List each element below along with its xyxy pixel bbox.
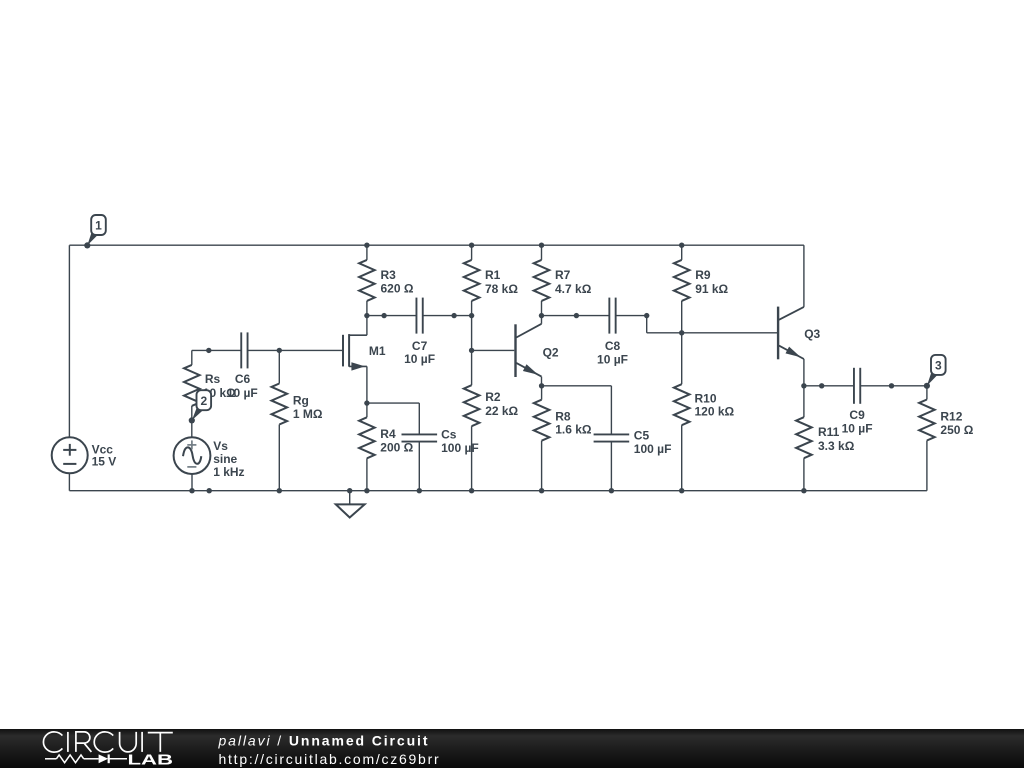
capacitor C6 plates [241,332,247,368]
svg-text:R12: R12 [940,409,962,423]
svg-text:1 kHz: 1 kHz [213,465,244,479]
svg-text:Rs: Rs [205,372,221,386]
label Rg [293,394,323,422]
svg-text:C7: C7 [412,339,428,353]
svg-text:4.7 kΩ: 4.7 kΩ [555,282,592,296]
wire C8 right bend to Q3 base [616,316,778,333]
resistor R11 [796,386,812,491]
svg-text:78 kΩ: 78 kΩ [485,282,518,296]
svg-text:250 Ω: 250 Ω [940,423,973,437]
svg-text:22 kΩ: 22 kΩ [485,404,518,418]
wire bottom ground rail [69,490,927,492]
node 2 flag [189,390,211,423]
svg-text:sine: sine [213,452,237,466]
wire node2 to Vs top [191,420,193,437]
svg-text:http://circuitlab.com/cz69brr: http://circuitlab.com/cz69brr [219,751,441,767]
junction dot segment on ground rail [207,488,212,493]
wire C6 to Rg junction and M1 gate [248,349,344,351]
wire C7 to R1 node [423,315,472,317]
node 1 flag [84,215,106,248]
svg-text:Cs: Cs [441,427,457,441]
capacitor C7 plates [416,298,422,334]
svg-text:3.3 kΩ: 3.3 kΩ [818,439,855,453]
label Vs [213,439,244,479]
junction dot node1 on top rail [85,243,90,248]
voltage source Vs sine [174,437,211,474]
terminal dot C9 right [889,383,894,388]
wire R1 bottom to base junction [471,316,473,351]
svg-text:R9: R9 [695,268,711,282]
resistor R2 [464,350,480,490]
label R10 [695,392,735,419]
junction dot R11 on ground rail [801,488,806,493]
label Q2 [543,345,559,359]
label Rs [203,372,236,400]
terminal dot C8 right [644,313,649,318]
junction dot M1 source node [364,400,369,405]
label R9 [695,268,728,296]
label C6 [227,372,258,400]
resistor R8 [534,386,550,491]
svg-text:10 µF: 10 µF [597,352,628,366]
junction dot R3 top [364,243,369,248]
junction dot Vs on ground rail [189,488,194,493]
label Q3 [804,327,820,341]
label R12 [940,409,973,436]
junction dot R1 bottom / C7 [469,313,474,318]
resistor R9 [674,245,690,333]
svg-text:1: 1 [95,219,102,233]
junction dot ground tap [347,488,352,493]
label R4 [380,427,413,455]
svg-text:C9: C9 [849,408,865,422]
junction dot R4 on ground rail [364,488,369,493]
wire Rs top to C6 [192,349,242,351]
svg-text:2: 2 [200,394,207,408]
svg-text:Q2: Q2 [543,345,559,359]
label R1 [485,268,518,296]
junction dot Cs on ground rail [417,488,422,493]
terminal dot C8 left [574,313,579,318]
svg-text:100 µF: 100 µF [441,441,479,455]
svg-text:Rg: Rg [293,394,309,408]
wire Vcc minus to ground rail [68,473,70,490]
svg-text:1 MΩ: 1 MΩ [293,407,323,421]
capacitor C9 plates [854,368,860,404]
CircuitLab logo resistor-diode symbol [45,754,127,763]
wire Q2 base [472,349,515,351]
label R2 [485,390,518,418]
label R8 [555,409,592,436]
label R3 [381,268,414,296]
label Cs [441,427,479,455]
capacitor C8 plates [609,298,615,334]
wire C5 bottom to ground rail [610,442,612,491]
ground [336,491,365,518]
junction dot R7 top [539,243,544,248]
resistor R4 [359,403,375,491]
svg-text:120 kΩ: 120 kΩ [695,404,735,418]
junction dot R2 on ground rail [469,488,474,493]
svg-text:R8: R8 [555,409,571,423]
junction dot C5 on ground rail [609,488,614,493]
resistor R10 [674,333,690,491]
svg-text:91 kΩ: 91 kΩ [695,282,728,296]
label Vcc [92,443,117,469]
junction dot R1 top [469,243,474,248]
label M1 [369,344,386,358]
label R11 [818,425,855,453]
terminal dot C6 left [206,348,211,353]
capacitor C5 plates [594,434,630,441]
svg-text:1.6 kΩ: 1.6 kΩ [555,422,592,436]
terminal dot C9 left [819,383,824,388]
svg-text:C6: C6 [235,372,251,386]
junction dot R3 bottom / M1 drain [364,313,369,318]
transistor M1 NMOS [343,316,367,404]
voltage source Vcc 15 V [52,437,88,473]
terminal dot C7 right [451,313,456,318]
svg-text:15 V: 15 V [92,455,117,469]
svg-text:10 µF: 10 µF [227,386,258,400]
svg-text:200 Ω: 200 Ω [380,441,413,455]
svg-text:C8: C8 [605,339,621,353]
svg-text:R11: R11 [818,425,840,439]
wire Q2 emitter node to C5 [542,386,612,434]
node 3 flag [924,355,946,389]
junction dot Q2 base tap [469,348,474,353]
wire left rail from node 1 to Vcc [68,245,70,437]
svg-text:3: 3 [935,359,942,373]
junction dot R8 on ground rail [539,488,544,493]
wire Cs bottom to ground rail [418,442,420,491]
junction dot Rg on ground rail [277,488,282,493]
junction dot R7 bottom / Q2 collector [539,313,544,318]
label C9 [842,408,873,436]
svg-text:R7: R7 [555,268,571,282]
junction dot R9 bottom / Q3 base tap [679,330,684,335]
svg-text:LAB: LAB [128,753,174,768]
resistor R3 [359,245,375,315]
svg-text:R3: R3 [381,268,397,282]
wire emitter node to C9 [804,385,854,387]
terminal dot C7 left [381,313,386,318]
label C5 [634,428,672,455]
wire Vs bottom to ground rail [191,474,193,491]
resistor Rg [272,350,288,490]
wire Q2 collector to C8 [542,315,610,317]
junction dot Q2 emitter node [539,383,544,388]
svg-text:C5: C5 [634,428,650,442]
svg-text:pallavi / Unnamed Circuit: pallavi / Unnamed Circuit [218,733,430,749]
CircuitLab logo wordmark CIRCUIT [43,732,172,752]
junction dot C6 right / Rg top [277,348,282,353]
footer text [218,733,441,767]
label R7 [555,268,592,296]
resistor Rs [184,350,200,420]
resistor R1 [464,245,480,315]
svg-text:R4: R4 [380,427,396,441]
label C7 [404,339,435,366]
svg-text:M1: M1 [369,344,386,358]
svg-text:R2: R2 [485,390,501,404]
svg-text:10 µF: 10 µF [404,352,435,366]
capacitor Cs plates [402,434,438,441]
label C8 [597,339,628,366]
resistor R7 [534,245,550,315]
transistor Q3 NPN and collector wire [778,245,804,386]
svg-text:Q3: Q3 [804,327,820,341]
junction dot Q3 emitter node [801,383,806,388]
svg-text:620 Ω: 620 Ω [381,281,414,295]
junction dot R10 on ground rail [679,488,684,493]
wire R3 node to C7 [367,315,417,317]
footer bar [0,729,1024,768]
resistor R12 [919,386,935,491]
wire M1 source node to Cs [367,403,419,434]
svg-text:R1: R1 [485,268,501,282]
CircuitLab logo LAB [128,753,174,768]
svg-text:100 µF: 100 µF [634,442,672,456]
junction dot R9 top [679,243,684,248]
wire C9 to R12 top [860,385,927,387]
transistor Q2 NPN [516,316,542,386]
wire top supply rail (node 1) [69,244,804,246]
svg-text:10 µF: 10 µF [842,421,873,435]
